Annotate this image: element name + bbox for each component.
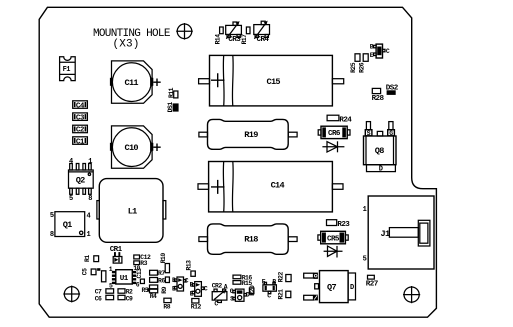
svg-text:R23: R23 [337,221,350,229]
transistor Q4 [190,282,208,298]
svg-text:R26: R26 [358,62,365,73]
capacitor C10 [110,126,161,168]
svg-text:R7: R7 [158,270,165,277]
resistor R26 [358,54,368,73]
LED DS1 [167,102,178,113]
svg-text:5: 5 [363,256,367,264]
svg-text:CR6: CR6 [328,130,341,138]
svg-text:L1: L1 [128,206,137,216]
svg-text:R28: R28 [372,95,385,103]
svg-text:C13: C13 [136,268,143,279]
resistor R24 [327,115,352,124]
svg-text:R27: R27 [366,280,379,288]
resistor R2 [118,289,133,296]
capacitor C15 [199,55,344,106]
svg-text:Q8: Q8 [375,146,384,156]
svg-text:C15: C15 [267,77,281,87]
LED DS2 [386,85,399,95]
svg-text:5: 5 [69,195,73,203]
resistor R8 [163,298,171,310]
svg-text:1: 1 [363,206,367,214]
svg-text:R21: R21 [277,289,284,300]
svg-text:CR4: CR4 [257,36,270,44]
transistor Q3 [172,277,189,293]
resistor R1 [84,255,99,262]
svg-text:C2: C2 [76,127,85,135]
diode CR6 [318,126,350,138]
capacitor C2 [73,125,88,135]
capacitor C4 [73,101,88,111]
resistor R22 [277,272,291,283]
svg-text:R8: R8 [163,304,170,311]
resistor R11 [168,87,178,98]
resistor R3 [134,260,148,267]
svg-text:R24: R24 [339,116,352,124]
svg-text:C9: C9 [126,295,133,302]
svg-text:R4: R4 [150,293,157,300]
svg-text:R19: R19 [244,130,258,140]
capacitor C6 [95,295,114,302]
svg-text:8: 8 [88,195,92,203]
resistor R13 [186,260,196,276]
svg-text:R1: R1 [84,255,91,262]
capacitor C11 [110,61,161,103]
fuse F1 [60,57,76,81]
capacitor C13 [136,268,145,284]
resistor R6 [150,277,166,284]
diode CR4 [254,21,270,44]
svg-text:R3: R3 [140,260,147,267]
resistor R5 [142,287,150,294]
diode CR3 [226,21,242,44]
IC U1 [109,265,141,289]
svg-text:R13: R13 [186,260,193,271]
transistor Q5 [230,288,250,303]
diode CR2 [212,282,228,307]
resistor R25 [350,54,360,73]
diode CR1 [110,246,123,263]
svg-text:R11: R11 [168,87,175,98]
svg-text:C5: C5 [82,268,89,275]
resistor R16 [233,274,252,281]
resistor R4 [150,285,158,300]
svg-text:C14: C14 [271,181,285,191]
capacitor C3 [73,113,88,123]
svg-text:5: 5 [50,212,54,220]
IC Q1 [50,212,91,239]
svg-text:J1: J1 [381,229,390,239]
svg-text:CR1: CR1 [110,246,123,254]
svg-text:(X3): (X3) [113,38,140,50]
mounting hole top [176,23,193,40]
tab D of Q7 [348,273,355,300]
svg-text:C4: C4 [76,102,85,110]
transistor Q6 [262,278,277,299]
mounting hole bottom-right [403,286,420,303]
resistor R17 [241,27,250,44]
diode CR5 [318,231,348,244]
svg-text:8: 8 [50,231,54,239]
board outline [39,7,436,317]
diode symbol of CR6 [322,141,344,152]
svg-text:CR2: CR2 [212,282,223,289]
svg-text:C6: C6 [95,295,102,302]
resistor R20 [249,285,256,296]
capacitor C14 [198,162,343,212]
svg-text:R6: R6 [158,277,165,284]
svg-text:1: 1 [88,158,92,166]
resistor R28 [372,88,385,103]
inductor L1 [97,179,166,243]
svg-text:C1: C1 [76,138,85,146]
svg-text:R10: R10 [160,253,167,264]
IC Q2 [69,158,94,203]
connector J1 [363,196,434,269]
resistor R10 [160,253,170,273]
svg-text:DS1: DS1 [167,102,174,113]
svg-text:R18: R18 [244,235,258,245]
mounting hole bottom-left [63,286,80,303]
capacitor C12 [134,254,151,261]
svg-text:R14: R14 [214,34,221,45]
resistor R15 [233,280,252,287]
resistor R7 [150,270,166,277]
svg-text:4: 4 [87,213,91,221]
svg-text:C10: C10 [125,143,139,153]
svg-text:Q1: Q1 [63,220,72,230]
svg-text:Q7: Q7 [327,283,336,293]
diode symbol of CR5 [324,246,343,258]
resistor R18 [199,224,297,254]
resistor R23 [327,220,351,229]
svg-text:R25: R25 [350,62,357,73]
resistor R19 [199,119,297,149]
capacitor C9 [118,295,133,302]
transistor Q9 (B/E/C) [370,44,390,59]
svg-text:R20: R20 [249,285,256,296]
svg-text:C11: C11 [125,78,139,88]
svg-text:Q2: Q2 [76,175,85,185]
svg-text:R12: R12 [191,304,202,311]
capacitor C5 [82,268,106,282]
svg-text:4: 4 [69,158,73,166]
resistor R12 [191,299,202,311]
transistor Q7 [304,271,348,303]
svg-text:D: D [350,284,354,292]
svg-text:CR5: CR5 [327,235,340,243]
svg-text:1: 1 [87,231,91,239]
resistor R27 [366,275,379,288]
svg-text:D: D [379,166,383,174]
svg-text:C3: C3 [76,114,85,122]
transistor Q8 [364,122,397,165]
capacitor C7 [95,289,114,296]
resistor R14 [214,27,223,44]
resistor R21 [277,289,291,300]
svg-text:R9: R9 [161,286,168,293]
svg-text:CR3: CR3 [228,36,241,44]
tab D of Q8 [367,165,396,174]
svg-text:F1: F1 [63,66,71,74]
capacitor C1 [73,137,88,147]
svg-text:R22: R22 [277,272,284,283]
blade of J1 [389,220,430,246]
svg-text:R17: R17 [241,34,248,45]
svg-text:U1: U1 [120,275,129,283]
resistor R9 [161,277,169,294]
